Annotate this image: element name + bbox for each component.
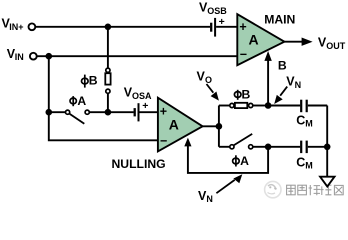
watermark text 2 bbox=[298, 185, 307, 195]
svg-text:+: + bbox=[160, 105, 167, 119]
wire second rail bbox=[37, 55, 238, 57]
svg-text:NULLING: NULLING bbox=[112, 157, 166, 171]
svg-text:A: A bbox=[240, 154, 249, 168]
wire battery to nulling + input bbox=[140, 111, 159, 113]
switch phiB2 bbox=[219, 103, 268, 108]
arrow output bbox=[302, 38, 313, 46]
wire left vertical bbox=[49, 56, 158, 140]
wire nulling output bbox=[203, 125, 219, 127]
op-amp nulling bbox=[158, 98, 203, 152]
svg-text:MAIN: MAIN bbox=[264, 12, 295, 26]
junction dot second rail bbox=[46, 53, 53, 60]
arrow VO bbox=[207, 84, 214, 93]
label phiB2 bbox=[234, 87, 250, 101]
svg-text:IN: IN bbox=[15, 52, 24, 62]
junction dot middle row bbox=[105, 109, 112, 116]
svg-text:B: B bbox=[242, 87, 251, 101]
arrow null input nulling amp bbox=[184, 138, 191, 147]
capacitor CM2 bbox=[300, 141, 302, 154]
svg-text:B: B bbox=[278, 59, 287, 73]
svg-text:A: A bbox=[77, 94, 86, 108]
junction dot nulling output bbox=[216, 123, 223, 130]
terminal VIN bbox=[30, 53, 37, 60]
terminal VIN+ bbox=[29, 23, 36, 30]
svg-text:−: − bbox=[160, 134, 167, 148]
arrow VN right bbox=[280, 87, 287, 96]
watermark text 5 bbox=[334, 185, 343, 194]
junction dot phiA2 right bbox=[265, 144, 272, 151]
svg-text:+: + bbox=[142, 100, 148, 112]
svg-text:IN+: IN+ bbox=[9, 22, 23, 32]
svg-text:−: − bbox=[240, 47, 247, 61]
watermark text 3 bbox=[309, 185, 320, 195]
watermark logo circle bbox=[265, 181, 281, 197]
svg-text:M: M bbox=[305, 119, 313, 129]
ground bbox=[320, 177, 334, 187]
junction dot top rail bbox=[105, 24, 112, 31]
label phiA2 bbox=[233, 154, 250, 168]
switch phiA2 bbox=[219, 134, 268, 149]
svg-text:O: O bbox=[205, 75, 212, 85]
label phiA1 bbox=[70, 94, 86, 108]
wire feedback loop bbox=[188, 145, 268, 173]
wire top rail right bbox=[216, 26, 238, 28]
arrow VN bottom bbox=[216, 180, 234, 193]
svg-text:A: A bbox=[249, 31, 259, 47]
svg-text:B: B bbox=[89, 74, 98, 88]
svg-text:+: + bbox=[239, 20, 246, 34]
svg-text:N: N bbox=[295, 80, 302, 90]
battery VOSB bbox=[210, 23, 212, 32]
wire right rail bbox=[326, 106, 328, 178]
watermark text 4 bbox=[320, 185, 331, 195]
capacitor CM1 bbox=[300, 100, 302, 113]
svg-text:C: C bbox=[296, 156, 305, 170]
wire vertical phiB1 branch top bbox=[107, 27, 109, 68]
junction dot left vertical bbox=[46, 109, 53, 116]
svg-text:M: M bbox=[305, 160, 313, 170]
battery VOSA bbox=[134, 108, 136, 116]
svg-text:N: N bbox=[206, 194, 213, 204]
wire middle row to battery bbox=[108, 111, 134, 113]
svg-text:OSB: OSB bbox=[207, 6, 227, 16]
watermark text 1 bbox=[287, 185, 296, 195]
junction dot right rail bbox=[324, 144, 331, 151]
label phiB1 bbox=[82, 74, 98, 88]
wire node B to cap1 bbox=[268, 105, 300, 107]
junction dot node B bottom bbox=[265, 102, 272, 109]
wire output bbox=[284, 41, 302, 43]
wire vertical V3 bbox=[218, 106, 220, 147]
switch phiB1 bbox=[105, 68, 110, 112]
switch phiA1 bbox=[49, 110, 108, 124]
wire arrow B to main null input bbox=[267, 60, 269, 106]
op-amp main bbox=[237, 14, 284, 65]
wire top rail left bbox=[36, 26, 210, 28]
svg-text:OUT: OUT bbox=[326, 41, 346, 51]
svg-text:C: C bbox=[296, 114, 305, 128]
svg-text:OSA: OSA bbox=[132, 91, 152, 101]
svg-text:A: A bbox=[169, 117, 179, 133]
wire to cap2 bbox=[268, 146, 300, 148]
